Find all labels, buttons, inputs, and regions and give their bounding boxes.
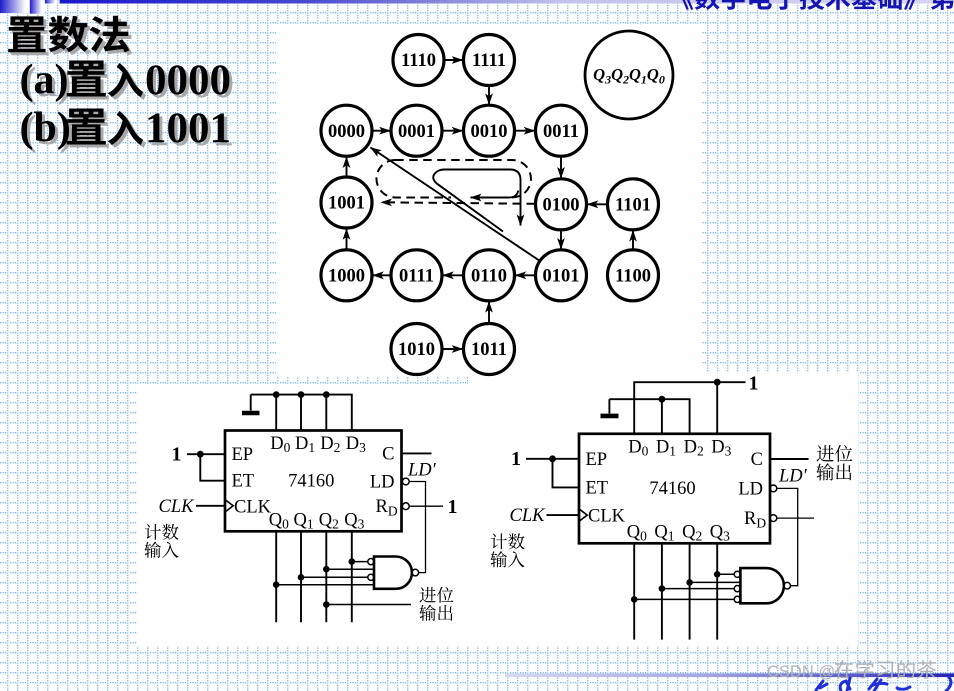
svg-text:1110: 1110 <box>401 51 436 71</box>
heading line 3: (b)置入1001 <box>20 105 235 155</box>
wires Q taps to G2 <box>634 574 740 599</box>
node 1101 <box>608 179 659 230</box>
node 1010 <box>391 324 442 375</box>
svg-text:1: 1 <box>448 496 458 518</box>
svg-text:EP: EP <box>232 445 254 465</box>
wire C output stub (right) <box>770 458 809 460</box>
wire 0100-1001 dashed preset arrow <box>381 202 535 204</box>
svg-text:1010: 1010 <box>398 340 435 360</box>
node Q3Q2Q1Q0 legend circle <box>585 31 673 119</box>
wire 0010-0011 <box>516 130 535 132</box>
ground (left) <box>242 395 260 413</box>
node 0110 <box>464 250 515 301</box>
G2 output bubble <box>784 582 791 589</box>
NAND gate G2 <box>740 568 783 603</box>
wire 1101-0100 <box>587 203 606 205</box>
wire 1100-1101 <box>632 231 634 249</box>
junction dots G1 inputs <box>273 558 355 588</box>
node 1001 <box>321 177 372 228</box>
svg-text:ET: ET <box>232 472 255 492</box>
svg-text:C: C <box>751 450 763 470</box>
G2 input bubbles <box>734 571 740 577</box>
node 0100 <box>536 179 587 230</box>
svg-text:(b): (b) <box>20 105 71 151</box>
heading line 2: (a)置入0000 <box>20 57 235 107</box>
node 0001 <box>391 105 442 156</box>
wires Q taps to G1 <box>276 562 374 585</box>
wire C output stub (left) <box>402 452 432 454</box>
wire solid capsule bottom edge left arrow <box>471 191 519 198</box>
top-left gradient block C <box>45 0 58 4</box>
G1 input bubbles <box>368 559 374 565</box>
label 进位输出 (left) <box>419 587 453 621</box>
svg-text:0110: 0110 <box>471 267 507 287</box>
svg-text:74160: 74160 <box>649 479 695 499</box>
svg-text:1011: 1011 <box>471 340 507 360</box>
svg-text:CSDN @: CSDN @ <box>767 663 835 681</box>
svg-text:1001: 1001 <box>145 105 231 152</box>
svg-text:0000: 0000 <box>145 57 231 104</box>
svg-text:1000: 1000 <box>328 267 365 287</box>
wire 0101-0000 preset jump <box>371 148 541 262</box>
RD bubble and wire to 1 (left) <box>402 503 409 510</box>
pin labels U2 <box>579 437 766 543</box>
wire 1001-0000 <box>346 157 348 176</box>
wire 1011-0110 <box>488 302 490 323</box>
svg-text:CLK: CLK <box>159 497 196 517</box>
white panel behind state diagram <box>276 24 702 376</box>
wire 1000-1001 <box>346 229 348 249</box>
node 1100 <box>608 250 659 301</box>
svg-text:C: C <box>382 444 394 464</box>
svg-text:CLK: CLK <box>588 507 626 527</box>
wire 0011-0100 <box>560 158 562 179</box>
wire D0-D3 to ground bus (left) <box>251 395 352 431</box>
counter circuits <box>144 373 852 640</box>
junction dots D bus (left) <box>273 391 330 398</box>
heading line 1: 置数法 <box>8 16 132 56</box>
svg-text:CLK: CLK <box>234 497 272 517</box>
node 0111 <box>391 250 442 301</box>
white panel behind circuits <box>137 385 858 646</box>
svg-text:1100: 1100 <box>615 267 651 287</box>
svg-text:(a): (a) <box>20 57 69 103</box>
wire 0110-0111 <box>443 274 462 276</box>
node 0010 <box>464 105 515 156</box>
label 计数输入 (right) <box>490 533 524 567</box>
svg-text:EP: EP <box>586 450 608 470</box>
74160 counter U2 <box>579 434 770 544</box>
top blue bar <box>60 0 954 4</box>
node 0011 <box>536 105 587 156</box>
wire CLK (right) <box>547 514 580 516</box>
svg-text:0001: 0001 <box>398 122 435 142</box>
label 进位输出 (right) <box>816 445 852 481</box>
svg-text:LD: LD <box>738 479 763 499</box>
wire D1,D2 to ground (right) <box>609 399 689 434</box>
watermark CSDN <box>767 660 936 681</box>
wire CLK (left) <box>196 505 225 507</box>
top-left gradient block B <box>30 0 44 14</box>
svg-text:Q3Q2Q1Q0: Q3Q2Q1Q0 <box>593 65 665 87</box>
bottom divider gradient line <box>505 673 954 677</box>
junction dots G2 inputs <box>631 571 721 603</box>
top-left gradient block A <box>0 0 30 13</box>
node 0101 <box>536 250 587 301</box>
wire D0,D3 to 1 (right) <box>634 382 745 434</box>
svg-text:74160: 74160 <box>288 471 334 491</box>
NAND gate G1 <box>374 557 412 589</box>
svg-text:0010: 0010 <box>471 122 508 142</box>
wire 1111-0010 <box>488 87 490 105</box>
svg-text:1: 1 <box>749 373 759 395</box>
LD bubble and wire to gate output (right) <box>770 485 777 492</box>
svg-text:CLK: CLK <box>510 506 547 526</box>
wire 0000-0001 <box>373 130 390 132</box>
wire 1 to EP and ET (right) <box>526 459 579 488</box>
wires Q0-Q3 down (left) <box>276 531 352 622</box>
label 计数输入 (left) <box>144 524 178 558</box>
LD bubble and wire to gate output (left) <box>402 478 409 485</box>
74160 counter U1 <box>225 431 402 532</box>
svg-text:LD′: LD′ <box>778 467 808 487</box>
svg-text:LD: LD <box>370 473 395 493</box>
wire 1110-1111 <box>445 59 462 61</box>
node 1111 <box>464 35 515 86</box>
carry tap from Q2 (left) <box>326 604 411 606</box>
wire 1010-1011 <box>443 348 462 350</box>
wire 0001-0010 <box>443 130 462 132</box>
node 1011 <box>464 324 515 375</box>
svg-text:1001: 1001 <box>328 194 365 214</box>
svg-text:1: 1 <box>172 444 182 466</box>
svg-text:0111: 0111 <box>399 267 434 287</box>
wires Q0-Q3 down (right) <box>634 543 717 639</box>
svg-text:1: 1 <box>511 448 521 470</box>
wire dashed skip-loop stadium <box>376 160 530 198</box>
ground (right) <box>608 399 610 413</box>
state transition diagram <box>321 31 673 375</box>
course title top right <box>681 0 954 10</box>
svg-text:1111: 1111 <box>472 51 506 71</box>
wire 0101-0110 <box>515 274 534 276</box>
svg-text:0011: 0011 <box>543 122 579 142</box>
pin labels U1 <box>225 434 398 532</box>
node 1110 <box>393 35 444 86</box>
svg-text:ET: ET <box>586 478 609 498</box>
G1 output bubble <box>412 569 419 576</box>
wire 0100-0101 <box>560 231 562 249</box>
svg-text:0100: 0100 <box>543 196 580 216</box>
node 1000 <box>321 250 372 301</box>
wire 1 to EP and ET (left) <box>187 454 225 481</box>
svg-text:1101: 1101 <box>615 196 651 216</box>
svg-text:LD′: LD′ <box>407 461 437 481</box>
signature strokes bottom right <box>816 677 951 691</box>
wire loop annotation diagonal and solid capsule with down arrow <box>433 170 520 232</box>
svg-text:0101: 0101 <box>543 267 580 287</box>
node 0000 <box>321 105 372 156</box>
svg-text:0000: 0000 <box>328 122 365 142</box>
RD bubble and stub (right) <box>770 515 777 522</box>
wire 0111-1000 <box>373 274 390 276</box>
